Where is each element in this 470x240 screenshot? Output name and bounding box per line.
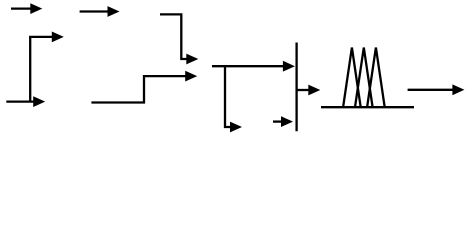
wire: bottom-left horizontal arrow xyxy=(6,96,45,107)
wire: elbow arrow (left, down-then-right feed) xyxy=(30,32,64,102)
axis: baseline under triangles xyxy=(321,106,414,108)
node: vertical bar xyxy=(295,43,297,132)
wire: input arrow 1 (top-left) xyxy=(11,3,42,14)
membership function triangle 1 xyxy=(343,48,361,108)
wire: branch elbow down from long arrow xyxy=(225,66,242,132)
wire: small arrow into bar (bottom) xyxy=(273,116,293,127)
membership function triangle 2 xyxy=(355,48,373,108)
wire: long horizontal arrow into vertical bar xyxy=(212,61,295,72)
wire: elbow arrow (top-middle, right-then-down) xyxy=(160,14,198,64)
membership function triangle 3 xyxy=(367,48,385,108)
wire: step arrow (bottom-middle, up-then-right) xyxy=(91,71,197,103)
wire: output arrow (right) xyxy=(408,84,465,95)
wire: small arrow out of bar (right) xyxy=(297,85,321,96)
wire: input arrow 2 (top, second) xyxy=(80,6,120,17)
